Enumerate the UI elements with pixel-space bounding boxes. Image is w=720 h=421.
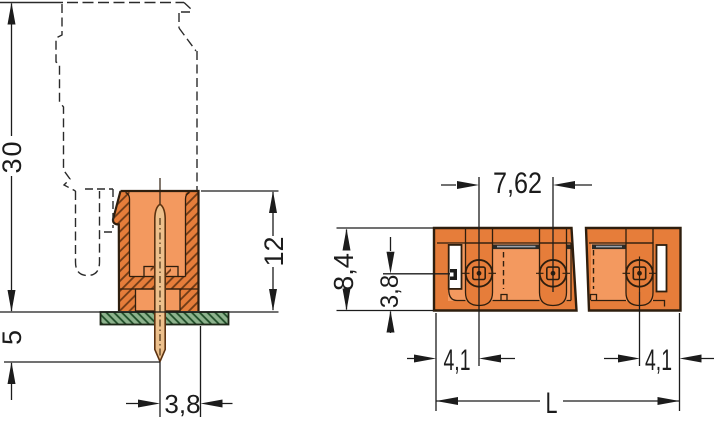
svg-text:4,1: 4,1	[645, 344, 672, 377]
svg-text:3,8: 3,8	[164, 389, 200, 419]
svg-text:7,62: 7,62	[493, 167, 542, 200]
svg-text:5: 5	[0, 330, 27, 345]
svg-text:30: 30	[0, 139, 27, 173]
svg-text:L: L	[546, 387, 558, 420]
svg-text:3,8: 3,8	[376, 275, 404, 309]
svg-text:4,1: 4,1	[444, 344, 471, 377]
svg-text:8,4: 8,4	[328, 253, 359, 291]
svg-text:12: 12	[259, 236, 289, 266]
